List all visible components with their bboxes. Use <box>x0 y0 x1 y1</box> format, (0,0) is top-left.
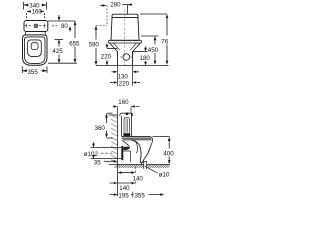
dim 195/355 line <box>110 194 162 196</box>
svg-text:450: 450 <box>148 47 159 54</box>
bowl dome left edge <box>110 43 118 52</box>
seat band lower line <box>123 139 152 141</box>
dim 160 extension ticks <box>27 13 45 20</box>
bowl dome inner right <box>130 43 136 50</box>
svg-text:655: 655 <box>69 40 80 47</box>
wall extension below ground <box>117 165 119 197</box>
dim 355 line <box>23 70 47 72</box>
dim 280 left arrow <box>100 5 103 7</box>
water inlet hidden axis (dashed) <box>106 5 108 26</box>
dim 76 top ref line <box>140 13 167 15</box>
svg-text:355: 355 <box>135 193 146 200</box>
flush button <box>34 24 37 27</box>
dim 340 arrows <box>24 4 47 7</box>
svg-text:ø10: ø10 <box>159 172 170 179</box>
svg-text:590: 590 <box>89 42 100 49</box>
outlet axis dashed (below ground) <box>134 167 136 184</box>
foot top edge <box>140 161 146 163</box>
dim 80 up arrow <box>69 28 71 32</box>
fill valve body <box>124 120 130 133</box>
bowl opening (plan) <box>28 40 42 57</box>
fixing hole sides <box>144 161 147 169</box>
bowl dome right edge <box>133 43 141 52</box>
dim 80 dashed ref <box>52 25 59 27</box>
cistern lid (rear) <box>112 14 138 17</box>
dim 425 line+arrows <box>58 44 60 62</box>
pipe flange <box>121 146 123 160</box>
dim 360 bottom corner <box>107 137 113 139</box>
dim 220b arrows outside <box>110 82 113 84</box>
seat band mid line <box>122 137 152 139</box>
svg-text:130: 130 <box>118 74 129 81</box>
cistern body (rear) <box>111 17 140 40</box>
fixing hole (white notch) <box>144 164 147 169</box>
dim 590 line+arrows <box>95 30 97 62</box>
ø10 leader <box>145 166 158 173</box>
pipe axis dashed <box>101 152 113 154</box>
hinge connectors <box>26 32 46 35</box>
svg-text:140: 140 <box>119 185 130 192</box>
dim 340 extension ticks <box>24 2 47 10</box>
dim 220a top arrow <box>106 44 108 45</box>
fixing holes dashed line <box>25 25 48 27</box>
trap outer curve <box>132 140 142 163</box>
trap inner curve 2 <box>135 140 138 153</box>
svg-text:76: 76 <box>161 38 168 45</box>
dim ø102 top arrow <box>93 142 95 143</box>
outlet horn fill <box>124 147 130 150</box>
dim 450 top ref line <box>141 35 159 37</box>
cistern (plan) <box>24 21 48 32</box>
wall face line <box>117 115 119 165</box>
dim 340 line <box>24 4 46 6</box>
cistern lid (side) <box>120 113 133 116</box>
dim 360 top corner <box>107 112 113 114</box>
fixing hole marks <box>27 24 45 28</box>
bowl front underside <box>141 144 151 164</box>
dim 355 extension ticks <box>22 66 47 73</box>
seat ledge (rear) <box>109 40 142 43</box>
dim 76 line+arrows <box>166 19 168 61</box>
valve inner tubes <box>126 119 127 133</box>
push button cap <box>126 113 129 115</box>
ground hatching <box>115 165 170 168</box>
dim 160 line <box>27 11 44 13</box>
flush button slot <box>35 25 36 26</box>
extension line y21 (cistern back level) <box>48 20 75 22</box>
soil pipe top/bottom <box>91 148 122 159</box>
dim 160 arrows <box>27 10 45 13</box>
outlet circle <box>123 54 130 61</box>
dim 590 top dashed ref <box>96 25 107 27</box>
dim 180 bottom arrow <box>145 61 147 62</box>
dim 360 line+arrows <box>106 118 108 134</box>
fill valve dome <box>124 117 130 120</box>
svg-text:220: 220 <box>119 81 130 88</box>
dim 450 line+arrows <box>154 40 156 61</box>
trap inner curve 1 (flush channel + outlet horn) <box>122 140 130 150</box>
dim 425 top tick <box>55 39 64 41</box>
svg-text:160: 160 <box>32 9 43 16</box>
seat front rounding <box>150 137 152 145</box>
svg-text:80: 80 <box>61 23 68 30</box>
dim 130 extension lines <box>118 66 133 86</box>
svg-text:400: 400 <box>163 150 174 157</box>
wall hatching <box>111 116 118 164</box>
cistern lid bottom line <box>112 16 138 18</box>
svg-text:35: 35 <box>94 159 101 166</box>
valve base <box>123 133 130 136</box>
svg-text:220: 220 <box>101 53 112 60</box>
svg-text:280: 280 <box>110 2 121 9</box>
dim 140a line <box>121 172 132 174</box>
dim 220a top ref line <box>107 48 118 50</box>
dim 160 extensions <box>118 107 132 116</box>
dim ø102 bottom arrow <box>92 155 95 159</box>
wall top edge <box>109 114 118 116</box>
dim 220a bottom arrow <box>106 60 108 62</box>
dim 180 top ref line <box>133 51 148 53</box>
svg-text:360: 360 <box>95 125 106 132</box>
dim 355 arrows <box>22 69 47 72</box>
seat band top line <box>122 136 151 138</box>
svg-text:140: 140 <box>133 176 144 183</box>
dim 130 arrows outside <box>112 71 114 73</box>
water surface (plan) <box>31 43 38 50</box>
svg-text:160: 160 <box>118 99 129 106</box>
dim 280 right extension <box>127 5 129 14</box>
dim 180 top arrow <box>145 47 147 48</box>
cistern body (side) <box>122 113 132 136</box>
svg-text:195: 195 <box>118 192 129 199</box>
outlet cross dashes <box>120 56 133 58</box>
dim 280 right arrow <box>122 4 132 6</box>
svg-text:180: 180 <box>140 55 151 62</box>
seat inner line (plan) <box>25 37 46 64</box>
center line (rear, dashed) <box>124 10 126 66</box>
dim 35 arrow <box>104 160 114 162</box>
dim 140b line+arrows <box>110 182 136 184</box>
ground line (side) <box>109 164 170 166</box>
extension line y63.2 (bottom ref) <box>48 62 77 64</box>
outlet passage bottom <box>123 151 130 162</box>
pedestal (rear) <box>118 52 133 66</box>
tick between 195 and 355 <box>132 192 134 198</box>
dim 400 line+arrows <box>168 141 170 160</box>
svg-text:425: 425 <box>52 48 63 55</box>
bowl outer rim (plan) <box>23 35 48 65</box>
svg-text:ø102: ø102 <box>84 151 99 158</box>
svg-text:355: 355 <box>28 69 39 76</box>
dim 80 down arrow <box>58 15 60 20</box>
dim 160 line+outside arrows <box>113 106 140 108</box>
dim 355 right arrow <box>160 193 164 196</box>
dim 400 top ref line <box>153 136 170 138</box>
dim 655 line+arrows <box>74 21 76 62</box>
ground line (rear) <box>96 65 169 67</box>
bowl dome inner left <box>114 43 120 50</box>
